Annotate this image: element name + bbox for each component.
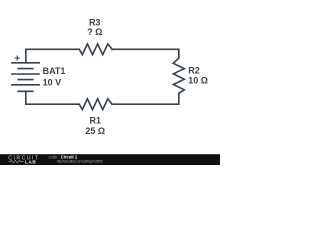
svg-text:25 Ω: 25 Ω [85,126,105,136]
resistor R3 [79,44,112,55]
plate short 2 [17,79,33,81]
plate short 1 [17,68,33,70]
resistor R2 [173,58,184,93]
plate short 3 (bottom terminal) [17,90,33,92]
wire bottom-left [26,91,80,104]
plus sign [15,56,20,61]
svg-text:10 V: 10 V [43,77,62,87]
resistor R1 [79,99,112,110]
svg-text:R2: R2 [188,66,200,76]
battery BAT1 plates [11,63,40,92]
svg-text:R3: R3 [89,17,101,27]
svg-text:BAT1: BAT1 [43,66,66,76]
wire top-right [112,49,179,58]
footer bar [0,154,220,165]
svg-text:http://circuitlab.com/c/89q2m9: http://circuitlab.com/c/89q2m9f559 [57,160,104,164]
plate long 1 [11,62,40,64]
svg-text:? Ω: ? Ω [87,27,102,37]
logo resistor zigzag [9,160,24,162]
svg-text:R1: R1 [90,116,102,126]
wire top-left: battery top terminal up and right [26,49,80,63]
plate long 3 [11,84,40,86]
svg-text:10 Ω: 10 Ω [188,76,208,86]
plate long 2 [11,73,40,75]
wire bottom-right [112,93,179,104]
svg-text:LAB: LAB [25,160,36,165]
